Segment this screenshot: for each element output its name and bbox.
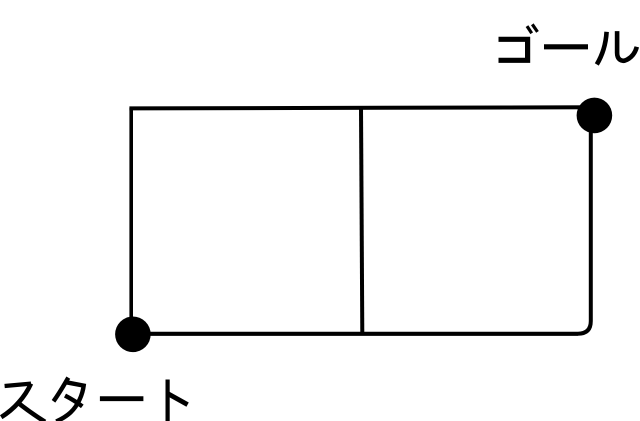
wire left (start to top-left corner) [129, 108, 133, 334]
node start (dot bottom-left) [115, 317, 151, 353]
wire bottom (start to rounded corner) [131, 332, 578, 336]
label start: katakana SU branch stroke [17, 402, 46, 421]
label start: katakana TA top-right hook stroke [56, 382, 83, 421]
label start: katakana TA inner stroke [65, 396, 82, 407]
wire middle vertical [361, 107, 362, 333]
label start: katakana TO tick [168, 394, 188, 405]
label start: katakana SU main diagonal [1, 384, 31, 418]
node goal (dot top-right) [577, 98, 613, 134]
label start: katakana TO vertical [166, 380, 170, 421]
wire bottom-right rounded corner [578, 321, 591, 334]
label goal: long vowel bar [544, 44, 588, 49]
label start: katakana SU top bar [5, 384, 31, 386]
wire top (top-left corner to goal) [129, 107, 592, 108]
label goal: katakana RU right stroke [617, 31, 637, 61]
label goal: dakuten marks [527, 24, 538, 33]
label start: long vowel bar [100, 396, 143, 401]
wire right (goal down to rounded corner) [589, 107, 593, 321]
label start: katakana TA first (no) stroke [54, 378, 69, 402]
label goal: katakana GO (ko) [499, 39, 528, 60]
label goal: katakana RU left stroke [597, 32, 607, 65]
